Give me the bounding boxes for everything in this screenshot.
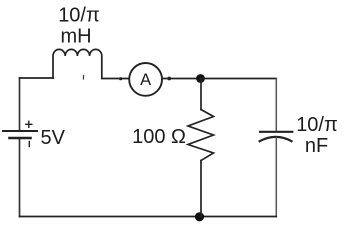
battery plus sign [26,121,32,127]
wire top-left horizontal [20,77,54,79]
wire right vertical upper (to capacitor) [275,79,277,132]
wire top node to top-right corner [201,78,277,80]
scan tick under inductor [83,76,85,80]
battery minus tick [28,142,30,147]
wire ammeter to top node [162,78,201,80]
ammeter left terminal dot [119,77,122,80]
ammeter right terminal dot [167,77,171,81]
capacitor C1 bottom curved plate [260,137,292,141]
resistor R1 top lead [200,79,202,110]
resistor R1 bottom lead [200,161,202,217]
inductor L1 leads and coil [53,49,102,78]
capacitor C1 top plate [260,131,292,133]
wire bottom horizontal [20,216,277,218]
wire right vertical lower (capacitor to bottom) [275,138,277,217]
svg-text:mH: mH [60,26,91,48]
battery V1 top long plate [3,130,37,132]
svg-text:10/π: 10/π [58,5,100,27]
svg-text:nF: nF [305,135,328,157]
wire left vertical (source to top node) [19,78,21,130]
battery V1 bottom short plate [10,137,31,140]
svg-text:5V: 5V [41,127,66,149]
node bottom junction dot [195,212,204,221]
wire inductor to ammeter [102,78,129,80]
ammeter U1 circle [129,63,162,96]
wire left vertical (source to bottom node) [19,139,21,217]
resistor R1 zigzag [188,110,214,161]
node top junction dot [196,74,205,83]
svg-text:A: A [140,71,151,89]
svg-text:100 Ω: 100 Ω [132,126,186,148]
svg-text:10/π: 10/π [296,114,338,136]
